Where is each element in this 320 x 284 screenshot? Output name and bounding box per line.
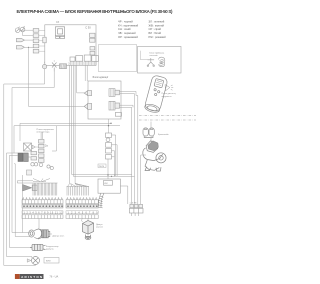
svg-text:Блок індикації: Блок індикації bbox=[93, 76, 109, 79]
fan motor link wire bbox=[38, 219, 40, 229]
room sensor RT1 bbox=[15, 27, 20, 33]
svg-text:РЖ : рожевий: РЖ : рожевий bbox=[149, 35, 167, 39]
svg-text:ОР : оранжевий: ОР : оранжевий bbox=[118, 35, 138, 39]
terminal clamp ticks bbox=[132, 213, 139, 216]
svg-text:СР : сірий: СР : сірий bbox=[149, 27, 162, 31]
transformer T1 bbox=[55, 27, 64, 39]
terminal strip row3 right bbox=[66, 215, 98, 219]
svg-text:БЛ : білий: БЛ : білий bbox=[149, 31, 162, 35]
receiver wire stub bbox=[140, 51, 147, 60]
plug box P5 bbox=[27, 170, 32, 175]
terminal strip CN-L row1 left bbox=[22, 200, 63, 204]
connector CN2 (right edge boxes) bbox=[90, 33, 95, 55]
capacitor part bbox=[30, 244, 46, 250]
pump wires down bbox=[141, 155, 146, 204]
relay boxes on board bottom bbox=[70, 55, 98, 61]
horizontal rail 2 bbox=[14, 125, 120, 127]
plug P1 bbox=[16, 38, 24, 41]
svg-text:76 - UA: 76 - UA bbox=[49, 275, 58, 279]
ribbon wire J1 right bbox=[120, 91, 137, 93]
step motor drawing bbox=[83, 221, 94, 240]
pump label box bbox=[44, 258, 59, 264]
wire P1 to CN1 bbox=[24, 39, 33, 41]
footer logo ariston bbox=[15, 274, 44, 279]
pump drawing bbox=[143, 141, 166, 171]
plug P2 bbox=[16, 46, 24, 49]
ribbon wire J2 right bbox=[120, 105, 134, 107]
wire CN-B left bbox=[29, 47, 85, 106]
pump coil (dark) bbox=[148, 141, 159, 151]
terminal strip CN-L upper row pins bbox=[23, 197, 98, 199]
svg-text:КМ: КМ bbox=[104, 183, 107, 185]
wire left rail down bbox=[14, 123, 56, 153]
socket for P4 bbox=[32, 185, 37, 191]
feed wires to harness bbox=[17, 181, 33, 183]
harness fan left bbox=[33, 179, 58, 196]
svg-text:L N PE: L N PE bbox=[130, 202, 137, 204]
wall bracket part bbox=[143, 128, 154, 138]
svg-text:СХ: СХ bbox=[56, 21, 60, 24]
pipe sensor RT2 bbox=[20, 26, 25, 32]
IR beam icon bbox=[165, 85, 173, 91]
wire fuse to fan motor rail bbox=[4, 69, 45, 266]
section separator dash-dot lower bbox=[139, 119, 196, 121]
terminal strip CN-L row1 right bbox=[66, 200, 98, 204]
pump wire up bbox=[150, 138, 152, 143]
relay coils bbox=[31, 163, 54, 170]
wire P4 down bbox=[21, 175, 23, 230]
header J2 inside display board bbox=[109, 101, 120, 110]
svg-text:ARISTON: ARISTON bbox=[21, 275, 42, 279]
mains terminal block L N PE bbox=[129, 204, 143, 213]
board bottom pin row bbox=[71, 62, 97, 66]
svg-text:СН : синій: СН : синій bbox=[118, 27, 131, 31]
remote control drawing bbox=[144, 75, 168, 114]
display board outline bbox=[88, 81, 121, 119]
terminal labels row bbox=[22, 211, 98, 214]
varistor below board bbox=[52, 61, 57, 72]
terminal strip CN-L row2 (dark pins) bbox=[22, 204, 98, 208]
step motor wire bbox=[82, 219, 88, 223]
relay label box bbox=[98, 164, 106, 168]
connector column K bbox=[31, 140, 44, 163]
relay chain wires bbox=[108, 126, 117, 179]
wire P2 to CN1 bbox=[24, 46, 33, 48]
plug before pump motor bbox=[27, 259, 31, 262]
relay chain (power section) bbox=[106, 133, 112, 159]
wire CN-A left bbox=[77, 92, 85, 94]
display board bottom wire bbox=[108, 119, 110, 126]
wire bundle from board bottom bbox=[70, 65, 135, 183]
svg-text:C 30: C 30 bbox=[85, 26, 91, 30]
wire colour legend bbox=[118, 20, 166, 39]
wires sensors to CN1 bbox=[20, 30, 33, 35]
svg-text:ЧР : чорний: ЧР : чорний bbox=[118, 20, 133, 24]
plug arrow P4 (solid) bbox=[23, 185, 32, 192]
svg-text:РЕЛЕ: РЕЛЕ bbox=[99, 166, 105, 168]
note panel box bbox=[99, 45, 137, 72]
receiver unit box bbox=[138, 47, 182, 74]
svg-text:КЧ : коричневий: КЧ : коричневий bbox=[118, 23, 139, 27]
svg-text:ЗЛ : зелений: ЗЛ : зелений bbox=[149, 20, 165, 24]
svg-text:Кронштейн: Кронштейн bbox=[158, 133, 169, 136]
harness fan right bbox=[67, 184, 90, 196]
wires to T2 bbox=[7, 153, 31, 157]
power transformer T2 (dark) bbox=[18, 153, 28, 162]
fuse F1 below board bbox=[42, 62, 46, 69]
header J1 inside display board bbox=[109, 89, 120, 97]
control board PCB outline bbox=[45, 25, 96, 66]
svg-text:Блок приймача: Блок приймача bbox=[150, 52, 165, 55]
junction box right bbox=[98, 179, 120, 193]
svg-text:ЖВ : жовтий: ЖВ : жовтий bbox=[149, 23, 165, 27]
connector CN1 (left edge boxes) bbox=[33, 29, 46, 53]
bracket wire up bbox=[150, 122, 152, 129]
fan motor drawing bbox=[29, 229, 50, 239]
terminal strip row3 left bbox=[22, 215, 63, 219]
CN1 stubs into board bbox=[39, 30, 45, 51]
fan motor wires bbox=[12, 164, 52, 237]
svg-text:керування: керування bbox=[162, 96, 172, 98]
pump motor symbol bbox=[32, 257, 40, 265]
junction dots bbox=[108, 125, 109, 126]
jumper box inside display board bbox=[115, 113, 121, 117]
svg-text:вентилятора: вентилятора bbox=[37, 131, 51, 133]
svg-text:1 2 3 4 5 6 7 8 9 10 11 12: 1 2 3 4 5 6 7 8 9 10 11 12 bbox=[24, 212, 64, 214]
svg-text:1 2 3 4 5 6 7 8 9: 1 2 3 4 5 6 7 8 9 bbox=[68, 212, 99, 214]
junction dots at box top bbox=[107, 174, 108, 175]
display connector plug CN-A bbox=[84, 91, 91, 96]
IR sensor part icon bbox=[159, 57, 165, 67]
interference filter X1 bbox=[24, 143, 32, 151]
capacitor wire bbox=[14, 163, 15, 165]
svg-text:жалюзі: жалюзі bbox=[96, 226, 103, 229]
wire varistor to fan motor rail bbox=[12, 72, 54, 233]
filter block below board bbox=[60, 64, 67, 69]
svg-text:БЖК: БЖК bbox=[46, 261, 51, 263]
svg-text:сигналів: сигналів bbox=[150, 54, 159, 57]
wires junction box to terminal bbox=[115, 175, 128, 205]
section separator dash-dot upper bbox=[139, 115, 196, 117]
display connector plug CN-B bbox=[84, 103, 91, 109]
svg-text:ЕЛЕКТРИЧНА СХЕМА — БЛОК КЕРУВА: ЕЛЕКТРИЧНА СХЕМА — БЛОК КЕРУВАННЯ ВНУТРІ… bbox=[17, 9, 174, 14]
plug P3 bbox=[32, 145, 35, 149]
svg-text:ЧВ : червоний: ЧВ : червоний bbox=[118, 31, 136, 35]
braided cable to strip bbox=[98, 193, 104, 208]
svg-text:Двигун вент.: Двигун вент. bbox=[53, 236, 65, 238]
svg-text:двигуна: двигуна bbox=[46, 249, 54, 251]
pump wires bbox=[32, 257, 36, 266]
power wires down to terminal bbox=[132, 91, 138, 204]
IR receiver symbol bbox=[147, 58, 154, 66]
horizontal rail 1 bbox=[20, 122, 111, 124]
